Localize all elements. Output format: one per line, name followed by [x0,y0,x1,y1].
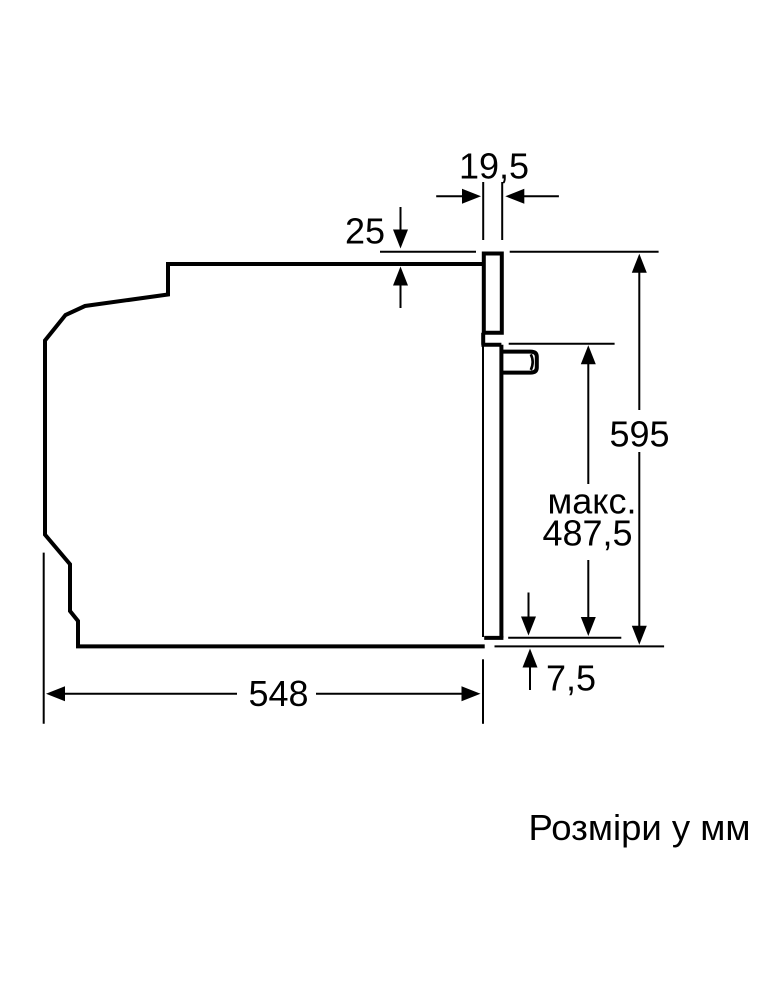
svg-text:25: 25 [345,211,385,252]
svg-text:595: 595 [609,414,669,455]
svg-text:19,5: 19,5 [459,146,529,187]
svg-text:548: 548 [248,673,308,714]
svg-text:487,5: 487,5 [542,513,632,554]
svg-text:Розміри у мм: Розміри у мм [529,807,751,848]
svg-text:7,5: 7,5 [546,658,596,699]
